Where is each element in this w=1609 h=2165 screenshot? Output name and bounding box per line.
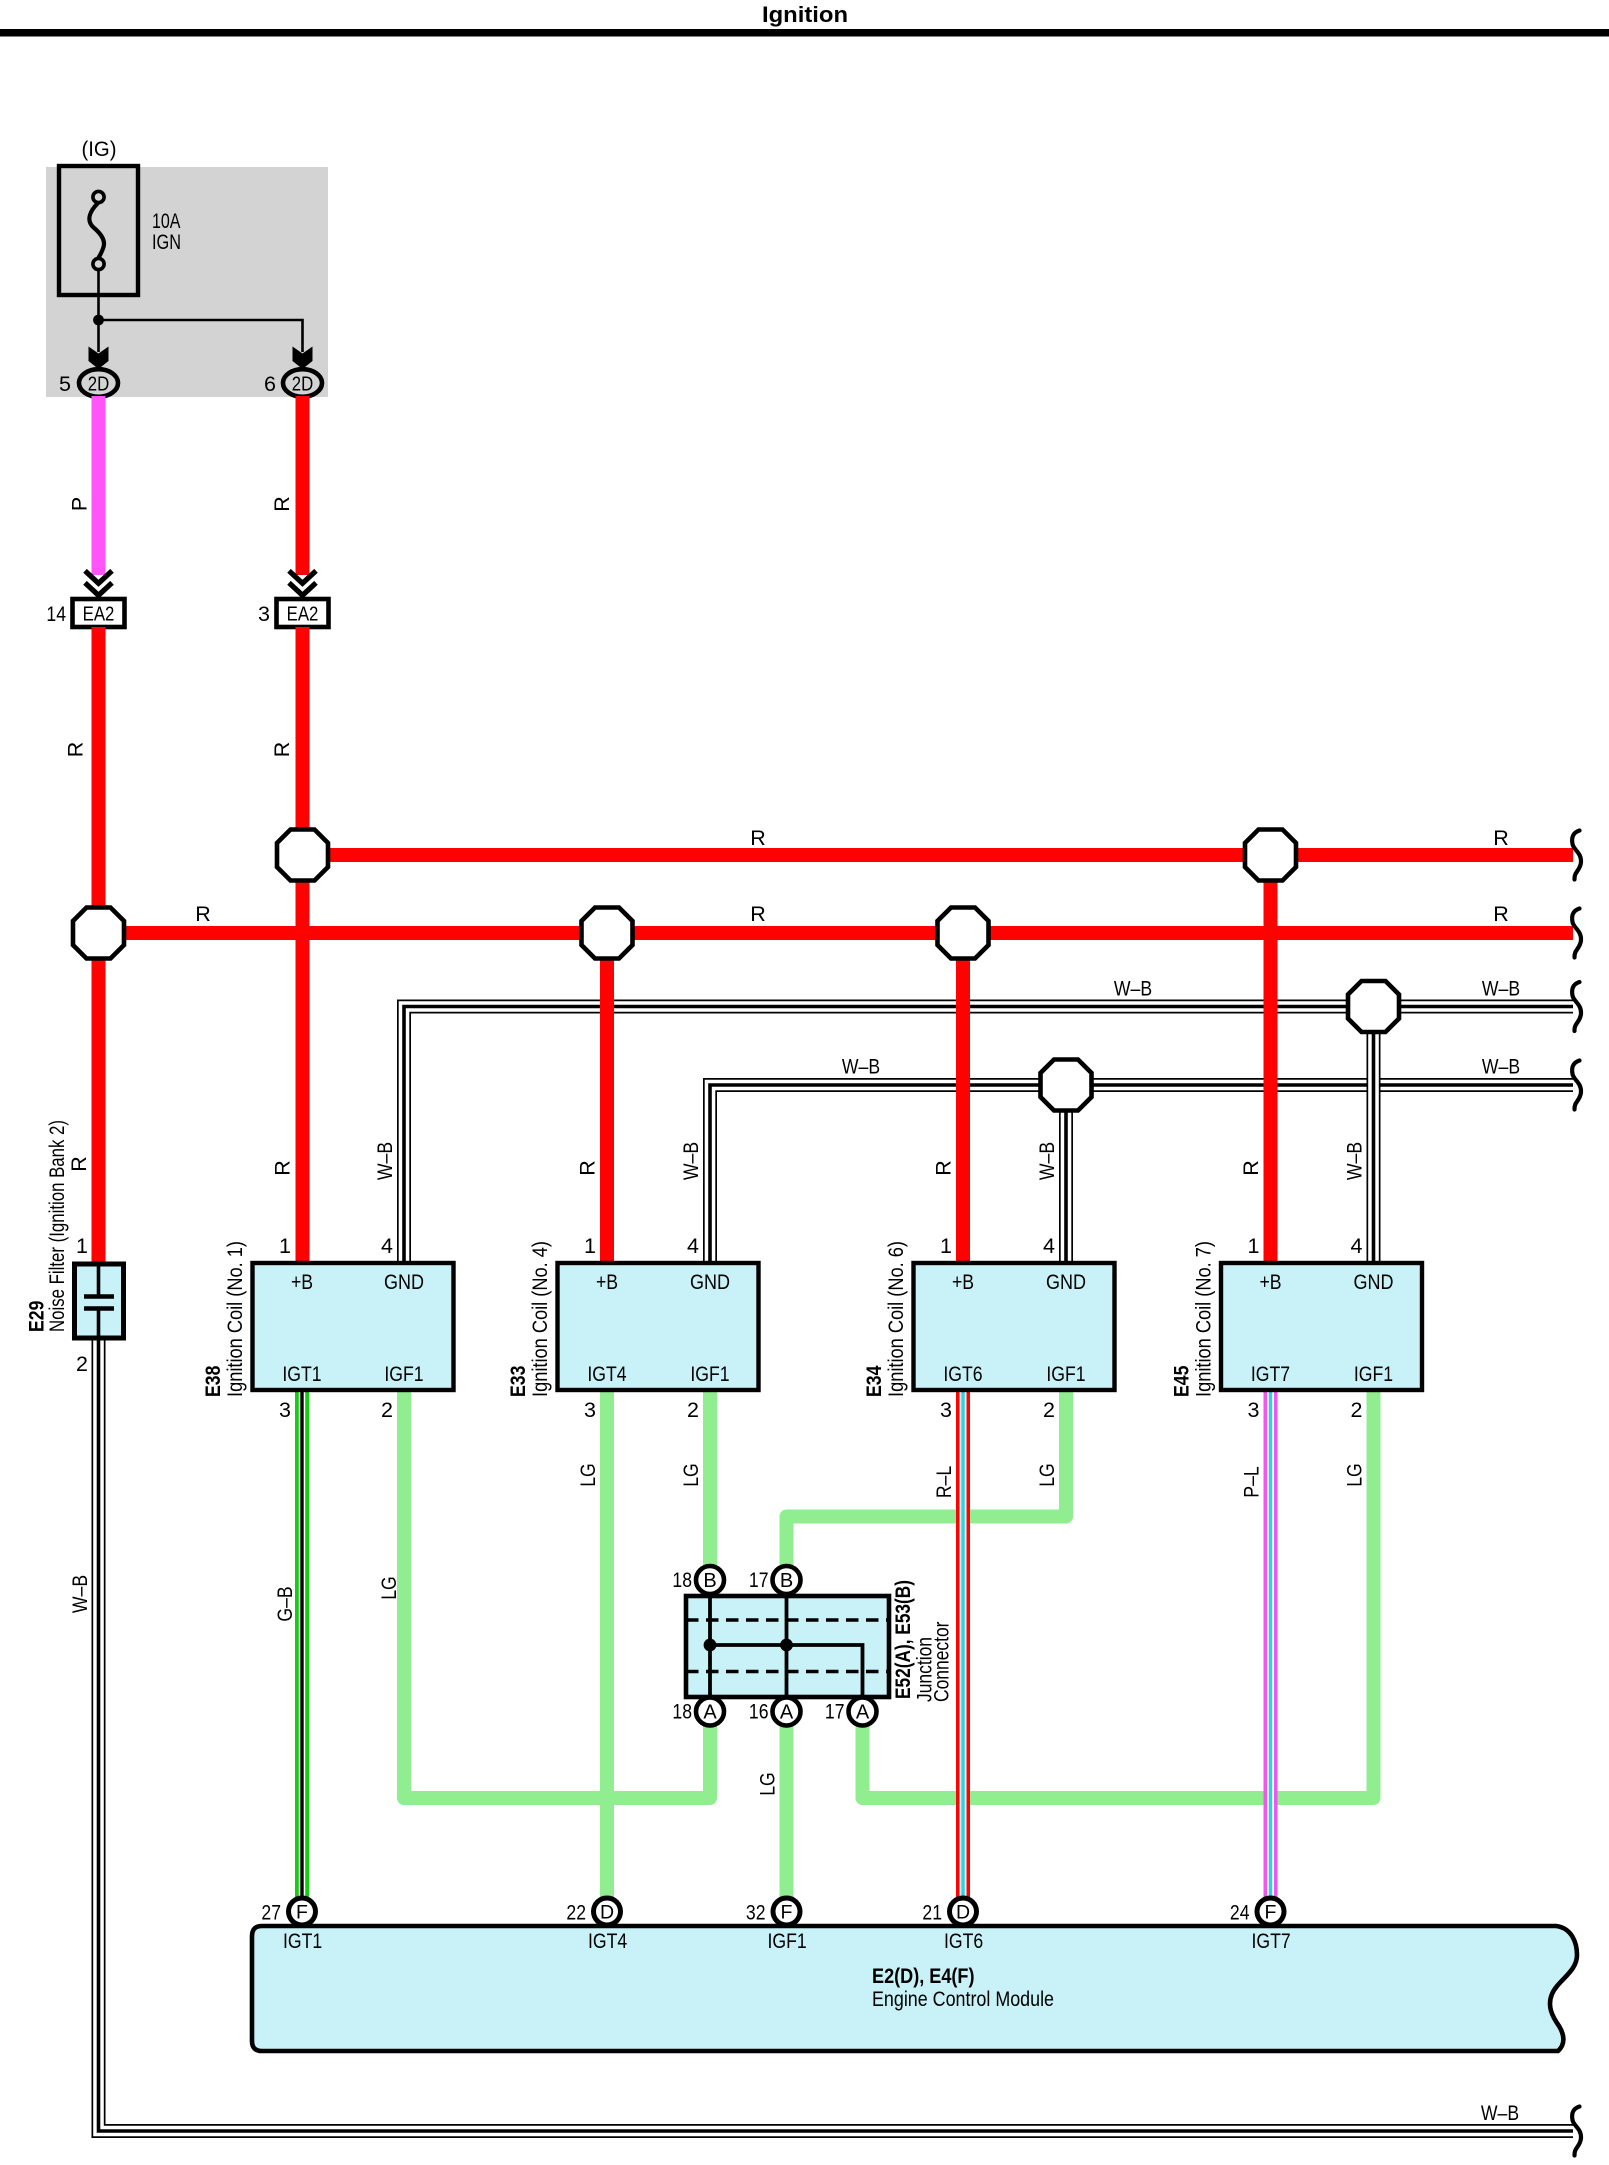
svg-text:3: 3 <box>258 602 270 626</box>
svg-text:2: 2 <box>1351 1398 1363 1422</box>
connector EA2 pin 3 <box>277 599 329 627</box>
junction octagon E33 feed <box>582 908 633 959</box>
svg-text:+B: +B <box>1259 1270 1281 1294</box>
svg-text:4: 4 <box>1351 1234 1363 1258</box>
svg-text:F: F <box>296 1902 308 1924</box>
junction octagon E45 feed <box>1245 830 1296 881</box>
wire R to E45 +B <box>1264 855 1278 1263</box>
svg-text:E52(A), E53(B): E52(A), E53(B) <box>891 1580 915 1699</box>
svg-text:2D: 2D <box>88 373 110 396</box>
wire W-B net ground bus 2 <box>710 1085 1573 1263</box>
svg-text:IGT4: IGT4 <box>588 1929 627 1953</box>
break symbol R bus upper <box>1572 831 1581 880</box>
svg-text:Ignition: Ignition <box>762 2 848 27</box>
svg-text:1: 1 <box>76 1234 88 1258</box>
svg-text:2D: 2D <box>292 373 314 396</box>
junction octagon E34 feed <box>938 908 989 959</box>
wire LG from junction A16 to ECM IGF1 <box>780 1726 794 1899</box>
svg-text:LG: LG <box>679 1463 703 1487</box>
svg-text:Noise Filter (Ignition Bank 2): Noise Filter (Ignition Bank 2) <box>45 1120 69 1332</box>
wire R from terminal 6 <box>296 396 310 575</box>
junction connector E52 E53 body <box>686 1596 889 1697</box>
svg-text:E45: E45 <box>1170 1366 1194 1397</box>
svg-text:1: 1 <box>940 1234 952 1258</box>
fuse element <box>89 203 104 258</box>
wire P from terminal 5 <box>92 396 106 575</box>
connector terminal 6 2D <box>283 369 322 397</box>
wire R from EA2 14 to noise filter <box>92 627 106 1262</box>
wire R bus lower <box>99 926 1574 940</box>
connector terminal 5 2D <box>79 369 118 397</box>
svg-text:+B: +B <box>952 1270 974 1294</box>
svg-text:6: 6 <box>264 372 276 396</box>
svg-text:16: 16 <box>749 1700 769 1724</box>
wire R-L from E34 IGT6 to ECM IGT6 <box>956 1390 970 1898</box>
svg-text:1: 1 <box>1248 1234 1260 1258</box>
svg-text:5: 5 <box>59 372 71 396</box>
ignition coil E33 body <box>558 1263 759 1390</box>
ignition coil E34 body <box>914 1263 1115 1390</box>
svg-text:Ignition Coil (No. 4): Ignition Coil (No. 4) <box>528 1241 552 1397</box>
svg-text:+B: +B <box>596 1270 618 1294</box>
svg-text:R: R <box>270 496 294 512</box>
svg-text:R: R <box>64 742 88 758</box>
svg-text:1: 1 <box>584 1234 596 1258</box>
svg-text:IGF1: IGF1 <box>384 1362 423 1386</box>
wire W-B from noise filter to bottom bus <box>99 1337 1574 2131</box>
junction terminal 17 A <box>849 1698 877 1726</box>
wire R to E34 +B <box>956 933 970 1263</box>
svg-text:W–B: W–B <box>1114 977 1152 1001</box>
fuse block shaded area <box>46 167 328 397</box>
svg-text:2: 2 <box>687 1398 699 1422</box>
svg-text:R: R <box>1493 902 1509 926</box>
svg-text:EA2: EA2 <box>83 603 115 626</box>
svg-text:LG: LG <box>756 1772 780 1796</box>
svg-text:4: 4 <box>381 1234 393 1258</box>
svg-text:R: R <box>271 1160 295 1176</box>
break symbol W-B bus 1 <box>1572 982 1581 1031</box>
junction dot <box>93 315 104 326</box>
wire R from EA2 3 to E38 +B <box>296 627 310 1263</box>
ignition coil E45 body <box>1221 1263 1422 1390</box>
svg-text:GND: GND <box>1354 1270 1394 1294</box>
svg-text:LG: LG <box>1035 1463 1059 1487</box>
wire G-B from E38 IGT1 to ECM IGT1 <box>295 1390 309 1898</box>
svg-text:3: 3 <box>940 1398 952 1422</box>
svg-text:G–B: G–B <box>273 1586 297 1621</box>
svg-text:W–B: W–B <box>373 1142 397 1180</box>
svg-text:LG: LG <box>377 1576 401 1600</box>
svg-text:LG: LG <box>576 1463 600 1487</box>
noise filter E29 body <box>75 1264 124 1338</box>
svg-text:P–L: P–L <box>1240 1466 1264 1497</box>
svg-text:B: B <box>780 1570 793 1592</box>
ECM terminal 21 D IGT6 <box>950 1898 977 1925</box>
title underline bar <box>0 29 1609 37</box>
svg-text:2: 2 <box>381 1398 393 1422</box>
svg-text:R–L: R–L <box>932 1466 956 1498</box>
arrow into terminal 6 <box>293 347 313 370</box>
wire LG from E38 IGF1 to junction A18 <box>404 1390 710 1798</box>
svg-text:Ignition Coil (No. 1): Ignition Coil (No. 1) <box>223 1241 247 1397</box>
svg-text:IGF1: IGF1 <box>1046 1362 1085 1386</box>
svg-text:IGT7: IGT7 <box>1252 1929 1291 1953</box>
svg-text:A: A <box>703 1702 717 1724</box>
break symbol R bus lower <box>1572 909 1581 958</box>
svg-text:Connector: Connector <box>930 1622 954 1703</box>
svg-text:32: 32 <box>746 1901 766 1925</box>
junction terminal 16 A <box>773 1698 801 1726</box>
svg-text:R: R <box>195 902 211 926</box>
svg-text:P: P <box>68 497 92 511</box>
svg-text:+B: +B <box>291 1270 313 1294</box>
svg-text:E34: E34 <box>862 1366 886 1397</box>
wire W-B from E34 GND <box>1059 1085 1073 1263</box>
svg-text:2: 2 <box>1043 1398 1055 1422</box>
wire R bus upper <box>303 848 1574 862</box>
wire LG from E33 IGF1 to junction B18 <box>703 1390 717 1566</box>
svg-text:R: R <box>67 1156 91 1172</box>
svg-text:E38: E38 <box>201 1366 225 1397</box>
svg-text:IGF1: IGF1 <box>1354 1362 1393 1386</box>
svg-text:W–B: W–B <box>1482 1055 1520 1079</box>
svg-text:2: 2 <box>76 1352 88 1376</box>
svg-text:IGT1: IGT1 <box>282 1362 321 1386</box>
junction octagon EA2-3 bus <box>277 830 328 881</box>
svg-text:IGF1: IGF1 <box>768 1929 807 1953</box>
wire fuse to junction dot <box>97 270 100 352</box>
ECM terminal 27 F IGT1 <box>289 1898 316 1925</box>
svg-text:(IG): (IG) <box>82 137 117 161</box>
svg-text:GND: GND <box>384 1270 424 1294</box>
svg-text:EA2: EA2 <box>287 603 319 626</box>
junction octagon E45 ground <box>1348 981 1399 1032</box>
wire LG from E34 IGF1 to junction B17 <box>787 1390 1067 1566</box>
wire to terminal 6 <box>99 320 303 352</box>
svg-text:W–B: W–B <box>1343 1142 1367 1180</box>
svg-text:W–B: W–B <box>1482 977 1520 1001</box>
ECM terminal 22 D IGT4 <box>594 1898 621 1925</box>
svg-text:IGT6: IGT6 <box>943 1362 982 1386</box>
svg-text:E33: E33 <box>506 1366 530 1397</box>
svg-text:R: R <box>270 742 294 758</box>
svg-text:21: 21 <box>922 1901 942 1925</box>
svg-text:IGT1: IGT1 <box>283 1929 322 1953</box>
wire W-B from E45 GND <box>1367 1007 1381 1264</box>
svg-text:Ignition Coil (No. 6): Ignition Coil (No. 6) <box>884 1241 908 1397</box>
junction octagon EA2-14 bus <box>73 908 124 959</box>
splice arrows into EA2 14 <box>85 571 112 584</box>
svg-text:17: 17 <box>749 1568 769 1592</box>
svg-text:14: 14 <box>46 602 66 626</box>
svg-text:A: A <box>856 1702 870 1724</box>
engine control module body <box>252 1926 1577 2051</box>
junction terminal 18 A <box>696 1698 724 1726</box>
arrow into terminal 5 <box>89 347 109 370</box>
svg-text:IGT6: IGT6 <box>944 1929 983 1953</box>
connector EA2 pin 14 <box>73 599 125 627</box>
svg-text:W–B: W–B <box>1481 2101 1519 2125</box>
svg-text:24: 24 <box>1230 1901 1250 1925</box>
ignition coil E38 body <box>253 1263 454 1390</box>
svg-text:4: 4 <box>687 1234 699 1258</box>
junction terminal 17 B <box>773 1566 801 1594</box>
svg-text:IGT4: IGT4 <box>587 1362 626 1386</box>
svg-text:18: 18 <box>672 1568 692 1592</box>
svg-text:R: R <box>576 1160 600 1176</box>
fuse 10A IGN body <box>59 166 138 295</box>
svg-text:18: 18 <box>672 1700 692 1724</box>
svg-text:F: F <box>1265 1902 1277 1924</box>
svg-text:IGF1: IGF1 <box>690 1362 729 1386</box>
svg-text:Ignition Coil (No. 7): Ignition Coil (No. 7) <box>1192 1241 1216 1397</box>
svg-text:A: A <box>780 1702 794 1724</box>
svg-text:1: 1 <box>279 1234 291 1258</box>
svg-text:W–B: W–B <box>1035 1142 1059 1180</box>
svg-text:3: 3 <box>1248 1398 1260 1422</box>
svg-text:IGN: IGN <box>152 230 181 254</box>
junction terminal 18 B <box>696 1566 724 1594</box>
wire W-B net ground bus 1 <box>404 1007 1573 1264</box>
svg-text:W–B: W–B <box>68 1575 92 1613</box>
ECM terminal 24 F IGT7 <box>1257 1898 1284 1925</box>
svg-text:R: R <box>932 1160 956 1176</box>
break symbol W-B bus 2 <box>1572 1061 1581 1110</box>
ECM terminal 32 F IGF1 <box>773 1898 800 1925</box>
svg-text:3: 3 <box>279 1398 291 1422</box>
svg-text:D: D <box>600 1902 614 1924</box>
svg-text:GND: GND <box>690 1270 730 1294</box>
svg-text:F: F <box>781 1902 793 1924</box>
svg-text:22: 22 <box>566 1901 586 1925</box>
splice arrows into EA2 3 <box>289 571 316 584</box>
svg-text:17: 17 <box>825 1700 845 1724</box>
svg-text:R: R <box>750 902 766 926</box>
svg-text:GND: GND <box>1046 1270 1086 1294</box>
wire R to E33 +B <box>600 933 614 1263</box>
svg-text:W–B: W–B <box>842 1055 880 1079</box>
wire LG from E45 IGF1 to junction A17 <box>863 1390 1374 1798</box>
svg-text:B: B <box>703 1570 716 1592</box>
svg-text:R: R <box>1493 826 1509 850</box>
svg-text:3: 3 <box>584 1398 596 1422</box>
svg-text:R: R <box>1239 1160 1263 1176</box>
capacitor symbol <box>97 1264 101 1295</box>
svg-text:W–B: W–B <box>679 1142 703 1180</box>
svg-text:4: 4 <box>1043 1234 1055 1258</box>
svg-text:R: R <box>750 826 766 850</box>
svg-text:IGT7: IGT7 <box>1251 1362 1290 1386</box>
svg-text:Engine Control Module: Engine Control Module <box>872 1987 1054 2011</box>
svg-text:LG: LG <box>1343 1463 1367 1487</box>
junction octagon E34 ground <box>1041 1060 1092 1111</box>
break symbol W-B bottom bus <box>1572 2107 1581 2156</box>
svg-text:D: D <box>956 1902 970 1924</box>
junction connector internal links <box>708 1596 712 1697</box>
svg-text:E2(D), E4(F): E2(D), E4(F) <box>872 1964 975 1988</box>
svg-text:27: 27 <box>261 1901 281 1925</box>
wire LG from E33 IGT4 to ECM IGT4 <box>600 1390 614 1898</box>
wire P-L from E45 IGT7 to ECM IGT7 <box>1264 1390 1278 1898</box>
